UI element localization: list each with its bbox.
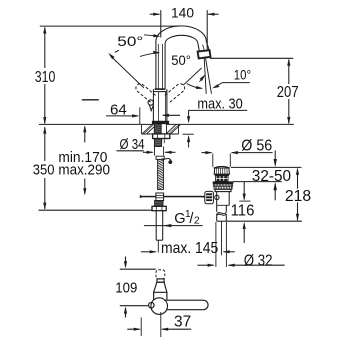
- lever boss circle: [151, 298, 168, 315]
- max30 up leader to max-thickness tick: [188, 137, 190, 148]
- drain tailpipe with break symbol: [216, 205, 218, 212]
- wire: hose-end level line (350 bottom reference): [39, 209, 153, 211]
- svg-text:max. 30: max. 30: [197, 95, 242, 112]
- dimension 140 right arrow: [208, 13, 219, 15]
- handle neck block: [157, 279, 164, 282]
- dimension 310 arrow up: [43, 26, 46, 33]
- wire: outlet level line to 207 dimension: [210, 57, 293, 59]
- 50-deg left leader to centerline: [144, 35, 159, 36]
- faucet spout middle line at outlet limb: [203, 45, 205, 51]
- dimension 350 arrow up: [43, 126, 46, 133]
- dimension 116 lower segment with up arrow: [243, 225, 245, 244]
- threaded stud below nut: [154, 139, 161, 147]
- dimension max145 right arrow and extension (drain centerline): [221, 221, 223, 255]
- 10-deg leader from text to leg2: [214, 83, 250, 88]
- svg-text:350: 350: [33, 162, 55, 178]
- reference dash mark left of faucet: [82, 99, 99, 101]
- drain flange (black band): [213, 181, 234, 184]
- dimension min/max arrow down at hose end: [84, 179, 86, 194]
- dimension 109 lower segment: [125, 308, 127, 318]
- svg-text:37: 37: [174, 313, 191, 330]
- 50-deg left swing arc with arrow: [140, 53, 159, 57]
- wire: 140 left extension (column centerline extended): [160, 10, 162, 37]
- svg-text:50°: 50°: [117, 33, 143, 49]
- 50-deg right wing axis diagonal: [183, 68, 201, 85]
- drain waist band: [215, 174, 229, 175]
- dimension 37 right arrow with underline: [162, 328, 191, 330]
- dimension 207 lower segment: [288, 99, 290, 123]
- wire: drain rim level line: [231, 166, 302, 168]
- max30 max-thickness tick line: [183, 133, 194, 135]
- diameter 34 left arrow: [143, 151, 153, 153]
- 10-deg reference leg 2: [206, 59, 212, 94]
- G1/2 threaded tailpiece: [155, 201, 163, 207]
- pop-up rod clamp at tailpiece: [156, 193, 164, 201]
- faucet spout outer arc: [156, 26, 210, 51]
- wire: 109 bottom level line: [120, 305, 148, 307]
- dimension 37 left arrow: [127, 328, 139, 330]
- svg-text:2: 2: [194, 214, 200, 226]
- dimension 207 upper segment: [288, 60, 290, 85]
- dimension 350 arrow down: [43, 203, 46, 210]
- wire: top extension line at spout-top level (310 reference): [40, 25, 179, 27]
- faucet spout inner arc: [165, 35, 199, 51]
- aerator outlet block: [198, 50, 211, 58]
- pivot screw dome: [149, 302, 155, 308]
- dimension 32-50 upper arrow: [274, 151, 276, 165]
- dimension 140 left arrow: [150, 13, 160, 15]
- svg-text:50°: 50°: [171, 52, 191, 68]
- wire: deck top line: [39, 123, 294, 125]
- handle body cylinder: [154, 292, 167, 300]
- dimension 109 upper segment: [125, 257, 127, 267]
- drain slotted section: [216, 176, 228, 182]
- drain pivot bracket: [205, 191, 214, 203]
- dimension 32-50 lower arrow: [274, 184, 276, 201]
- dimension 350 vertical line upper segment: [44, 127, 46, 161]
- 10-deg arc from wing diagonal to leg1 with arrow: [187, 84, 202, 89]
- drain gasket hatched band: [213, 184, 232, 186]
- handle flared cone: [154, 282, 167, 292]
- phantom pull-rod knob (dashed): [156, 270, 165, 279]
- svg-text:max. 145: max. 145: [161, 240, 218, 257]
- drain plug dome: [214, 166, 230, 168]
- diameter 34 right arrow: [165, 151, 176, 153]
- G1/2 nut: [152, 206, 166, 210]
- dimension 310 vertical line upper segment: [44, 28, 46, 69]
- diameter 34 label underline: [117, 150, 144, 152]
- drain ball joint dome: [215, 195, 219, 199]
- lever arm stadium: [164, 300, 208, 310]
- flexible hose top fitting: [156, 156, 164, 159]
- drain pivot rod stub: [202, 196, 205, 198]
- diameter 56 right arrow and label underline: [232, 152, 273, 154]
- lever handle left phantom wing (dashed): [136, 84, 156, 103]
- G1/2 leader line with left-pointing arrow at pipe: [144, 225, 203, 227]
- max30 down leader to deck top: [188, 110, 190, 121]
- 50-deg leader stub above arrowhead: [115, 50, 119, 52]
- drain locknut hatched band: [214, 186, 232, 189]
- wire: 109 top level line: [120, 268, 156, 270]
- faucet tailpipe: [155, 211, 157, 241]
- max30 underline: [188, 109, 247, 111]
- dimension 350 vertical line lower segment: [44, 178, 46, 209]
- faucet riser pipe: [155, 42, 157, 90]
- dimension 64 extension line: [139, 107, 141, 124]
- drain thin band: [215, 189, 231, 191]
- pop-up rod left end cap: [140, 195, 142, 198]
- dimension 64 underline with right-pointing arrow: [106, 115, 138, 117]
- svg-text:Ø 56: Ø 56: [241, 137, 272, 154]
- svg-text:109: 109: [115, 280, 137, 296]
- dimension 218 lower segment: [297, 202, 299, 220]
- mounting nut below deck: [153, 134, 170, 139]
- faucet body joint lines: [155, 88, 166, 90]
- svg-text:Ø 34: Ø 34: [120, 137, 145, 153]
- dimension 218 upper segment: [297, 169, 299, 189]
- diameter 34 extension ticks: [154, 147, 156, 156]
- svg-text:Ø 32: Ø 32: [244, 252, 273, 269]
- faucet base flange: [152, 121, 168, 124]
- dimension 310 arrow down: [43, 117, 46, 124]
- wire: tailpipe end level line: [226, 220, 302, 222]
- svg-text:32-50: 32-50: [252, 168, 291, 185]
- diameter 56 left arrow: [202, 152, 212, 154]
- dimension 37 extension lines: [140, 318, 142, 337]
- pop-up rod horizontal: [141, 196, 202, 198]
- flexible hose side hook with ball end: [164, 158, 172, 162]
- flexible hose hatched body: [158, 159, 164, 189]
- drain body: [216, 192, 218, 206]
- wire: 140 right extension (outlet centerline): [206, 10, 208, 50]
- dimension max145 left arrow and extension: [141, 251, 156, 253]
- wire: flange underside level line: [233, 181, 282, 183]
- svg-text:116: 116: [231, 202, 255, 219]
- supply pipe beside stud: [161, 124, 166, 134]
- dimension 64 left-pointing arrow at column center: [163, 114, 180, 116]
- dimension 116 upper segment with down arrow and tick: [243, 182, 245, 200]
- svg-text:218: 218: [285, 188, 311, 205]
- diameter 32 extension lines: [215, 222, 217, 267]
- diameter 56 extension lines: [212, 154, 214, 167]
- deck cross-section hatching: [142, 124, 181, 134]
- svg-text:64: 64: [110, 102, 127, 119]
- diameter 32 left arrow: [198, 264, 214, 266]
- svg-text:310: 310: [35, 69, 56, 86]
- 10-deg reference leg 1 (outlet axis): [204, 59, 206, 94]
- threaded stud through deck: [154, 124, 161, 134]
- drain body bottom line at body/tailpipe transition: [217, 204, 230, 206]
- dimension min/max arrow up at deck: [84, 127, 86, 143]
- 50-deg left wing axis diagonal with end arrowhead: [110, 56, 144, 88]
- svg-text:207: 207: [277, 84, 299, 101]
- svg-text:140: 140: [171, 5, 194, 21]
- dimension 310 vertical line lower segment: [44, 84, 46, 124]
- drain plug cap with vertical knurling: [214, 168, 229, 174]
- lever handle right phantom wing (dashed): [165, 84, 185, 103]
- small pipe stub beside stud: [161, 139, 163, 144]
- faucet body column: [152, 89, 154, 121]
- pull-rod knob ball on column: [148, 100, 153, 105]
- diameter 32 right arrow with label underline: [229, 264, 285, 266]
- 50-deg right swing arc arrow: [199, 76, 204, 82]
- svg-text:max.290: max.290: [58, 162, 110, 178]
- svg-text:10°: 10°: [234, 68, 251, 83]
